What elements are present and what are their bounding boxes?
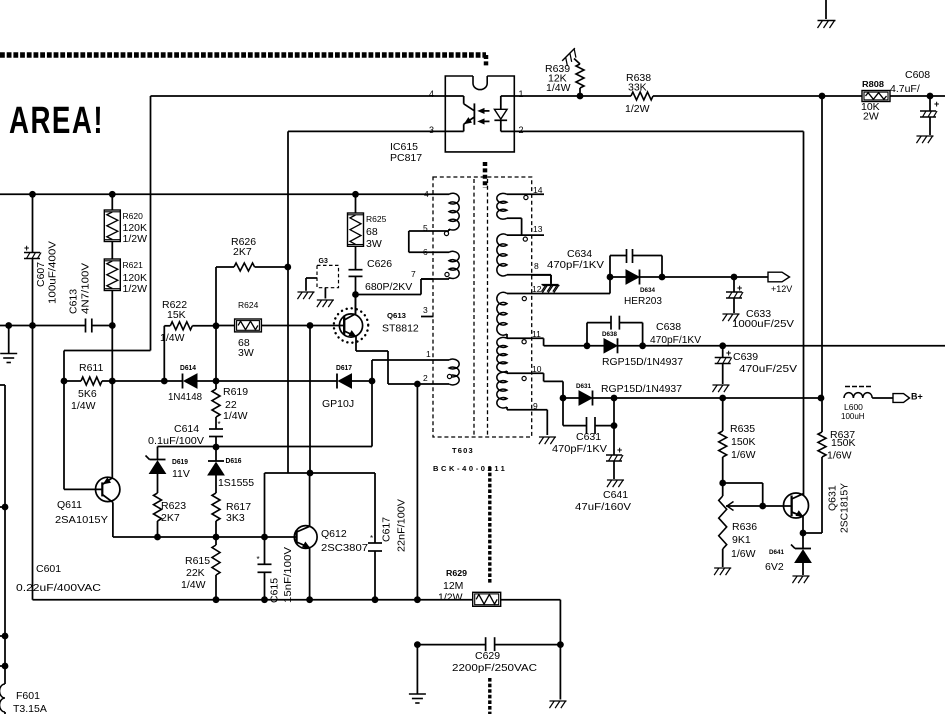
svg-text:3: 3: [429, 125, 434, 135]
svg-text:5: 5: [423, 223, 428, 233]
svg-text:1/4W: 1/4W: [160, 332, 185, 344]
svg-text:5K6: 5K6: [78, 388, 97, 400]
svg-text:R635: R635: [730, 423, 755, 435]
svg-text:BCK-40-0211: BCK-40-0211: [433, 464, 507, 473]
svg-text:1000uF/25V: 1000uF/25V: [732, 318, 794, 330]
svg-text:AREA!: AREA!: [9, 100, 104, 142]
svg-text:+: +: [737, 283, 742, 293]
svg-text:B+: B+: [911, 392, 923, 402]
svg-text:11V: 11V: [172, 468, 190, 480]
svg-text:PC817: PC817: [390, 152, 422, 164]
svg-text:*: *: [218, 420, 221, 429]
svg-text:9: 9: [533, 401, 538, 411]
svg-text:T603: T603: [452, 446, 474, 455]
svg-text:1/2W: 1/2W: [438, 592, 463, 604]
svg-text:3W: 3W: [366, 238, 382, 250]
svg-text:C608: C608: [905, 69, 930, 81]
svg-text:3: 3: [423, 305, 428, 315]
svg-text:4N7/100V: 4N7/100V: [80, 263, 92, 314]
svg-text:1/4W: 1/4W: [223, 410, 248, 422]
svg-text:+12V: +12V: [771, 284, 792, 294]
svg-text:R636: R636: [732, 521, 757, 533]
svg-text:R615: R615: [185, 555, 210, 567]
svg-text:1/2W: 1/2W: [123, 283, 148, 295]
svg-text:0.22uF/400VAC: 0.22uF/400VAC: [16, 582, 101, 594]
svg-text:1/4W: 1/4W: [181, 579, 206, 591]
svg-text:12: 12: [532, 284, 542, 294]
svg-text:4.7uF/: 4.7uF/: [890, 83, 920, 95]
svg-text:C639: C639: [733, 351, 758, 363]
svg-text:4: 4: [424, 189, 429, 199]
svg-text:L600: L600: [844, 402, 863, 412]
svg-text:R624: R624: [238, 300, 259, 310]
svg-text:+: +: [726, 348, 731, 358]
svg-text:8: 8: [534, 261, 539, 271]
svg-text:1/4W: 1/4W: [546, 82, 571, 94]
svg-text:1/2W: 1/2W: [123, 233, 148, 245]
svg-text:D631: D631: [576, 383, 591, 390]
svg-text:C626: C626: [367, 258, 392, 270]
svg-text:+: +: [617, 445, 622, 455]
svg-text:F601: F601: [16, 690, 40, 702]
svg-text:Q612: Q612: [321, 528, 347, 540]
svg-text:RGP15D/1N4937: RGP15D/1N4937: [601, 383, 682, 395]
svg-text:R611: R611: [79, 362, 103, 374]
svg-text:6V2: 6V2: [765, 561, 784, 573]
svg-text:4: 4: [429, 89, 434, 99]
svg-text:100uF/400V: 100uF/400V: [47, 241, 59, 304]
svg-text:7: 7: [411, 269, 416, 279]
svg-text:R619: R619: [223, 386, 248, 398]
svg-text:D614: D614: [180, 365, 196, 372]
svg-text:2: 2: [423, 373, 428, 383]
svg-text:D638: D638: [602, 331, 617, 338]
svg-text:47uF/160V: 47uF/160V: [575, 501, 631, 513]
svg-text:470pF/1KV: 470pF/1KV: [650, 334, 701, 346]
svg-text:680P/2KV: 680P/2KV: [365, 281, 412, 293]
svg-text:9K1: 9K1: [732, 534, 751, 546]
svg-text:2: 2: [519, 125, 524, 135]
svg-text:R621: R621: [123, 260, 144, 270]
svg-text:12M: 12M: [443, 580, 463, 592]
svg-text:Q611: Q611: [57, 499, 82, 511]
svg-text:GP10J: GP10J: [322, 398, 354, 410]
svg-text:D617: D617: [336, 365, 352, 372]
svg-text:150K: 150K: [831, 437, 856, 449]
svg-text:3K3: 3K3: [226, 512, 245, 524]
svg-text:470uF/25V: 470uF/25V: [739, 363, 797, 375]
svg-text:2SC1815Y: 2SC1815Y: [839, 483, 851, 533]
svg-text:2K7: 2K7: [233, 246, 252, 258]
svg-text:1N4148: 1N4148: [168, 391, 202, 403]
svg-text:2SA1015Y: 2SA1015Y: [55, 514, 108, 526]
svg-text:0.1uF/100V: 0.1uF/100V: [148, 435, 204, 447]
svg-text:ST8812: ST8812: [382, 323, 419, 335]
svg-text:C617: C617: [381, 517, 393, 542]
svg-text:*: *: [257, 555, 260, 564]
svg-text:R625: R625: [366, 214, 387, 224]
svg-text:33K: 33K: [628, 82, 647, 94]
svg-text:2K7: 2K7: [161, 512, 180, 524]
svg-text:D619: D619: [172, 459, 188, 466]
svg-text:Q631: Q631: [827, 485, 839, 511]
svg-text:6: 6: [423, 247, 428, 257]
svg-text:22K: 22K: [186, 567, 205, 579]
svg-text:14: 14: [533, 185, 543, 195]
svg-text:1/2W: 1/2W: [625, 103, 650, 115]
svg-text:100uH: 100uH: [841, 412, 865, 421]
svg-text:C615: C615: [269, 578, 281, 603]
svg-text:2200pF/250VAC: 2200pF/250VAC: [452, 662, 537, 674]
svg-text:C614: C614: [174, 423, 199, 435]
svg-text:C601: C601: [36, 563, 61, 575]
svg-text:3W: 3W: [238, 347, 254, 359]
svg-text:1: 1: [426, 349, 431, 359]
svg-text:68: 68: [366, 226, 378, 238]
svg-text:C607: C607: [35, 262, 47, 287]
svg-text:2SC3807: 2SC3807: [321, 542, 368, 554]
svg-text:1: 1: [519, 89, 524, 99]
svg-text:G3: G3: [319, 258, 328, 265]
svg-text:C641: C641: [603, 489, 628, 501]
svg-text:D616: D616: [226, 458, 242, 465]
svg-text:1/6W: 1/6W: [731, 548, 756, 560]
svg-text:C613: C613: [68, 289, 80, 314]
svg-text:R808: R808: [862, 80, 885, 89]
svg-text:C629: C629: [475, 650, 500, 662]
svg-text:1/6W: 1/6W: [827, 450, 852, 462]
svg-text:22nF/100V: 22nF/100V: [396, 499, 408, 552]
svg-text:+: +: [24, 243, 29, 253]
svg-text:R623: R623: [161, 500, 186, 512]
svg-text:D641: D641: [769, 549, 784, 556]
svg-text:15nF/100V: 15nF/100V: [282, 547, 294, 603]
svg-text:R629: R629: [446, 569, 468, 578]
svg-text:T3.15A: T3.15A: [13, 703, 47, 714]
svg-text:1/4W: 1/4W: [71, 400, 96, 412]
svg-text:1/6W: 1/6W: [731, 449, 756, 461]
svg-text:C638: C638: [656, 321, 681, 333]
svg-text:470pF/1KV: 470pF/1KV: [547, 259, 604, 271]
svg-text:2W: 2W: [863, 111, 879, 123]
svg-text:470pF/1KV: 470pF/1KV: [552, 443, 607, 455]
svg-text:13: 13: [533, 224, 543, 234]
svg-text:11: 11: [532, 329, 541, 339]
svg-text:R620: R620: [123, 211, 144, 221]
svg-text:+: +: [934, 99, 939, 109]
svg-text:15K: 15K: [167, 309, 186, 321]
svg-text:150K: 150K: [731, 436, 756, 448]
svg-text:HER203: HER203: [624, 295, 662, 307]
svg-text:1S1555: 1S1555: [218, 477, 254, 489]
svg-text:10: 10: [532, 364, 542, 374]
svg-text:Q613: Q613: [387, 313, 406, 320]
svg-text:RGP15D/1N4937: RGP15D/1N4937: [602, 356, 683, 368]
svg-text:D634: D634: [640, 287, 655, 294]
svg-text:C631: C631: [576, 431, 601, 443]
svg-text:*: *: [370, 534, 373, 543]
